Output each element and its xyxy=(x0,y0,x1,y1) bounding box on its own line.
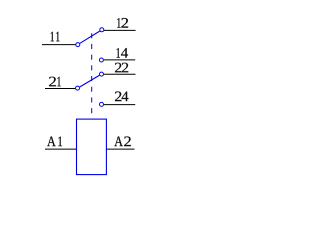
relay coil K1 xyxy=(77,119,107,175)
contact pivot circle 21 xyxy=(76,86,80,90)
wire 12 xyxy=(104,29,136,31)
wire A1 xyxy=(45,148,77,150)
contact circle 22 xyxy=(100,72,104,76)
contact pivot circle 11 xyxy=(76,43,80,47)
contact circle 14 xyxy=(99,58,103,62)
contact circle 12 xyxy=(100,28,104,32)
wire 21 xyxy=(45,88,75,90)
label 24 xyxy=(115,92,128,102)
contact arm 1 (movable contact 11-12) xyxy=(80,31,100,43)
label 12 xyxy=(117,18,128,28)
mechanical linkage (dashed) xyxy=(91,33,93,118)
label 22 xyxy=(115,63,128,73)
contact circle 24 xyxy=(100,102,104,106)
label 11 xyxy=(51,32,60,42)
wire A2 xyxy=(106,148,135,150)
label 14 xyxy=(117,48,128,58)
label 21 xyxy=(49,77,61,87)
label A2 xyxy=(114,137,131,147)
label A1 xyxy=(47,137,62,147)
contact arm 2 (movable contact 21-22) xyxy=(80,75,100,87)
wire 24 xyxy=(104,104,135,106)
wire 14 xyxy=(104,59,135,61)
wire 11 xyxy=(42,44,75,46)
wire 22 xyxy=(104,73,136,75)
